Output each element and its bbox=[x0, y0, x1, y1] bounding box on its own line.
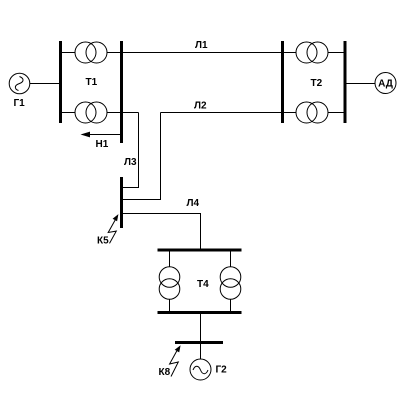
busbar 4 bbox=[344, 41, 347, 123]
busbar 1 bbox=[59, 41, 62, 123]
svg-text:Т1: Т1 bbox=[86, 77, 98, 88]
arrow Н1 bbox=[81, 132, 121, 138]
svg-text:Л1: Л1 bbox=[195, 40, 208, 51]
wire: T4 left winding stubs bbox=[169, 250, 171, 313]
svg-text:Л3: Л3 bbox=[124, 157, 137, 168]
fault К5 lightning arrow bbox=[108, 214, 118, 243]
busbar 8 bbox=[175, 341, 223, 344]
svg-text:Т4: Т4 bbox=[197, 279, 209, 290]
busbar 5 bbox=[120, 177, 123, 228]
svg-text:Л2: Л2 bbox=[194, 101, 207, 112]
wire: line Л4 bbox=[122, 214, 201, 251]
svg-text:К8: К8 bbox=[159, 367, 171, 378]
svg-text:Т2: Т2 bbox=[311, 78, 323, 89]
generator Г1 bbox=[9, 73, 30, 94]
busbar 3 bbox=[281, 41, 284, 123]
wire: top row (T1 winding, line Л1, T2 winding) bbox=[61, 52, 346, 54]
wire: generator Г1 to busbar 1 bbox=[29, 83, 61, 85]
svg-text:Г2: Г2 bbox=[216, 365, 228, 376]
wire: line Л2 vertical drop bbox=[122, 113, 161, 200]
wire: line Л2 horizontal bbox=[161, 112, 283, 114]
transformer T4 bbox=[159, 267, 241, 300]
fault К8 lightning arrow bbox=[170, 345, 181, 376]
transformer T1 bbox=[75, 42, 107, 123]
svg-text:Г1: Г1 bbox=[14, 98, 26, 109]
wire: bottom row (T1 lower winding, stub to Л3) bbox=[61, 112, 139, 114]
wire: T4 right winding stubs bbox=[230, 250, 232, 313]
svg-text:АД: АД bbox=[378, 79, 393, 90]
generator Г2 bbox=[190, 359, 211, 380]
busbar 7 bbox=[158, 311, 242, 314]
transformer T2 bbox=[296, 42, 328, 123]
svg-text:Н1: Н1 bbox=[96, 139, 109, 150]
svg-text:Л4: Л4 bbox=[187, 198, 200, 209]
wire: T2 lower winding bbox=[283, 112, 346, 114]
wire: line Л3 vertical drop bbox=[122, 113, 139, 188]
busbar 2 bbox=[120, 41, 123, 143]
busbar 6 bbox=[158, 249, 242, 252]
svg-text:К5: К5 bbox=[97, 236, 109, 247]
wire: busbar 7 to generator Г2 bbox=[200, 313, 202, 360]
wire: busbar 4 to motor АД bbox=[345, 83, 375, 85]
motor АД bbox=[375, 73, 396, 94]
